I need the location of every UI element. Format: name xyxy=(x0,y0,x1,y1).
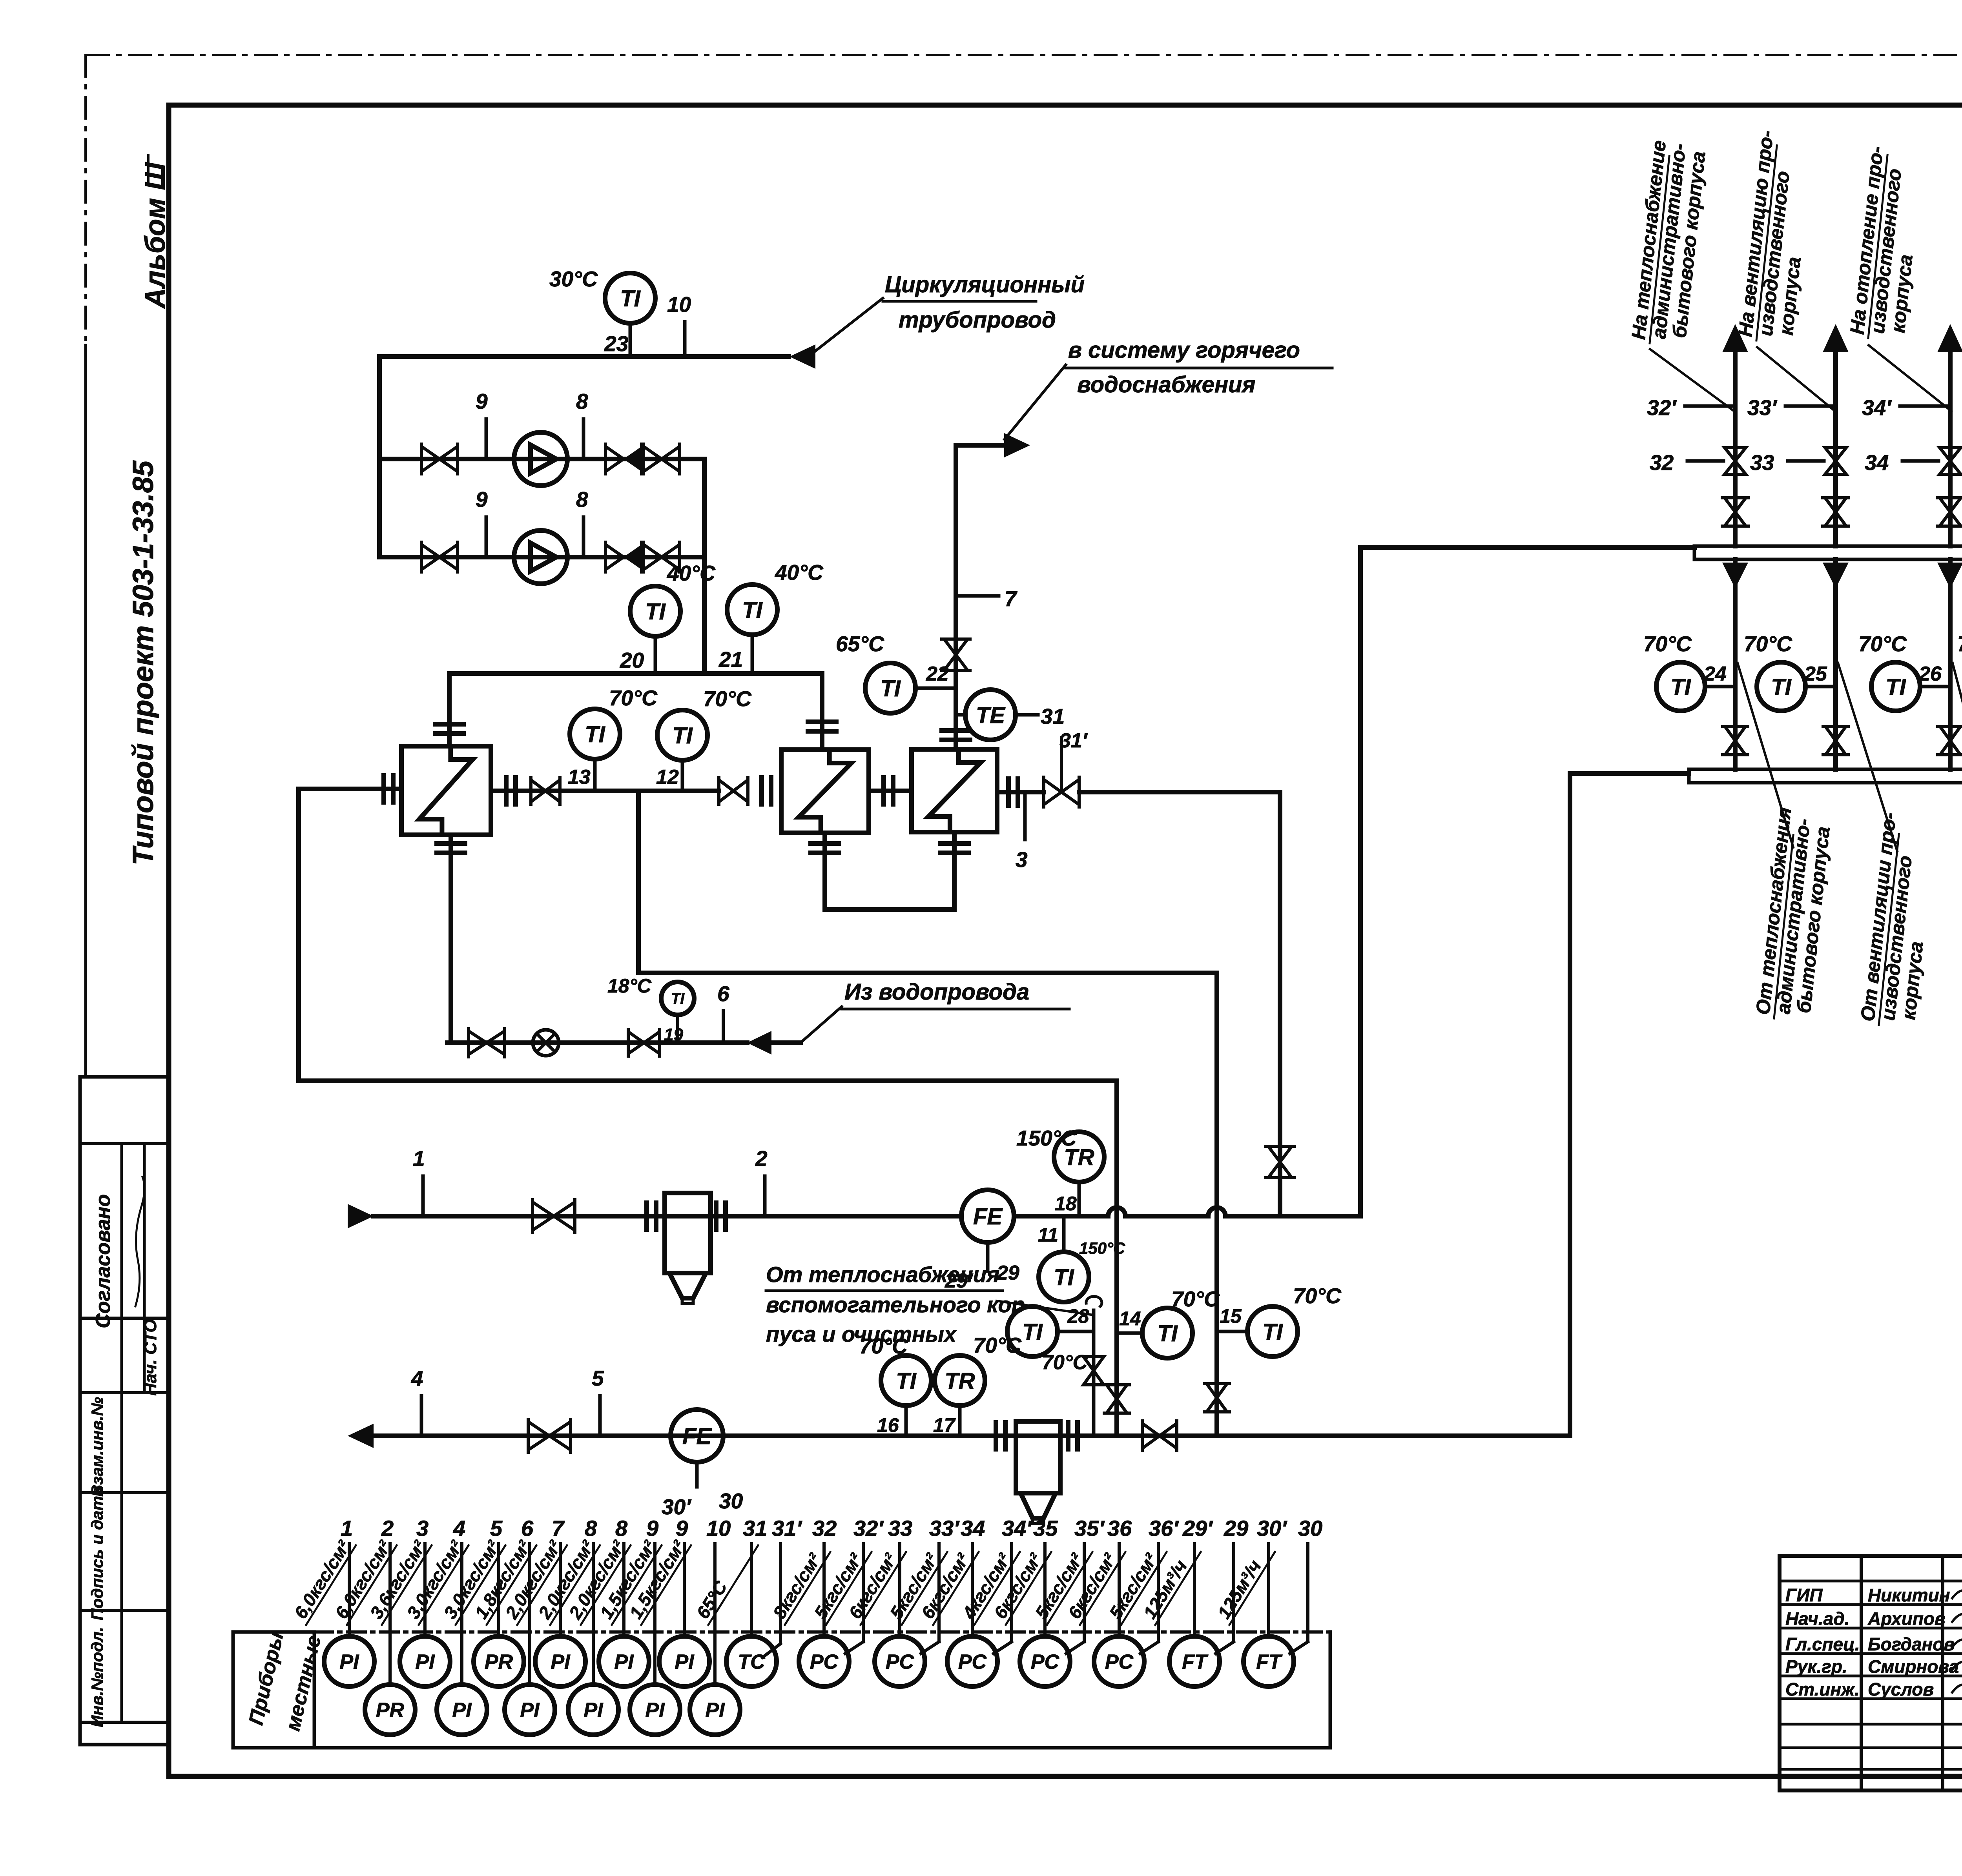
stub 34&#8242; xyxy=(1900,404,1950,408)
signature squiggle xyxy=(135,1177,144,1306)
return header vertical xyxy=(1568,774,1572,1436)
pump discharge vertical xyxy=(702,459,707,674)
svg-text:Нач.ад.: Нач.ад. xyxy=(1785,1608,1849,1629)
valve on return riser 26 xyxy=(1940,727,1960,741)
svg-text:TI: TI xyxy=(1771,674,1792,700)
instrument TI 16 (70C) xyxy=(881,1355,931,1406)
stub 33&#8242; xyxy=(937,1544,941,1642)
valve on line 1 xyxy=(532,1202,554,1230)
svg-text:6: 6 xyxy=(717,982,729,1006)
leader DHW label xyxy=(1005,365,1066,439)
svg-text:Богданов: Богданов xyxy=(1868,1634,1955,1654)
cold loop riser to supply crossing xyxy=(1114,1081,1119,1436)
svg-text:8: 8 xyxy=(576,487,588,512)
svg-text:8: 8 xyxy=(585,1516,597,1541)
cold loop bottom horizontal xyxy=(299,1078,1117,1083)
leader to riser 33 xyxy=(1757,347,1836,412)
svg-text:TI: TI xyxy=(645,599,666,625)
svg-text:3: 3 xyxy=(416,1516,429,1541)
cold loop left vertical xyxy=(296,789,301,1081)
stub 3 xyxy=(1023,792,1027,840)
svg-text:трубопровод: трубопровод xyxy=(899,307,1056,333)
svg-text:70°C: 70°C xyxy=(609,686,658,710)
sheet border left solid part xyxy=(84,345,87,1077)
HX2 left flange xyxy=(759,778,764,804)
svg-text:35: 35 xyxy=(1033,1516,1058,1541)
svg-text:19: 19 xyxy=(664,1025,683,1044)
svg-text:11: 11 xyxy=(1038,1224,1058,1246)
svg-text:Инв.№подл.: Инв.№подл. xyxy=(88,1627,106,1727)
heat exchanger HX3 xyxy=(912,749,997,832)
svg-text:Рук.гр.: Рук.гр. xyxy=(1785,1656,1847,1677)
svg-text:TC: TC xyxy=(738,1651,766,1674)
svg-text:TI: TI xyxy=(672,723,693,749)
supply riser 33 xyxy=(1833,345,1838,546)
valve on return riser 24 xyxy=(1725,727,1745,741)
instrument TE 31 xyxy=(965,690,1016,740)
valve after HX1 xyxy=(531,780,545,802)
water meter xyxy=(533,1030,559,1056)
arrow circulation return xyxy=(790,344,815,369)
svg-text:TI: TI xyxy=(1885,674,1906,700)
instrument PC 36 xyxy=(1118,1544,1121,1636)
svg-text:TE: TE xyxy=(976,703,1006,728)
return header bar xyxy=(1689,769,1962,783)
instrument TI 28 xyxy=(1007,1306,1058,1357)
valve on water line 2 xyxy=(628,1032,644,1054)
svg-text:TI: TI xyxy=(1022,1319,1043,1345)
svg-text:FT: FT xyxy=(1256,1651,1283,1674)
svg-text:9: 9 xyxy=(676,1516,688,1541)
signature table left part xyxy=(1780,1556,1962,1790)
svg-text:40°C: 40°C xyxy=(667,561,716,585)
HX1 bottom to water line xyxy=(449,835,453,1043)
upper feed horizontal xyxy=(1360,545,1694,550)
svg-text:5: 5 xyxy=(592,1366,604,1390)
instrument TR 17 (70C) xyxy=(935,1355,985,1406)
svg-text:1: 1 xyxy=(341,1516,353,1541)
svg-text:29: 29 xyxy=(1224,1516,1248,1541)
check valve pump2 xyxy=(605,545,624,570)
riser to upper header xyxy=(1358,548,1363,1216)
svg-text:Никитин: Никитин xyxy=(1868,1585,1950,1605)
svg-text:PI: PI xyxy=(520,1699,540,1722)
supply line 1 xyxy=(374,1214,961,1218)
leader water label xyxy=(800,1007,842,1043)
instrument TI 11 (150C) xyxy=(1039,1252,1089,1302)
svg-text:70°C: 70°C xyxy=(1042,1351,1088,1374)
instrument FT 30&#8242; xyxy=(1267,1544,1270,1636)
pump branch 2 xyxy=(379,555,704,559)
svg-text:PC: PC xyxy=(810,1651,839,1674)
svg-text:в систему горячего: в систему горячего xyxy=(1068,337,1300,363)
control valve 31' with stem xyxy=(1044,780,1061,805)
HX3 top riser / DHW outlet xyxy=(954,445,958,749)
svg-text:30′: 30′ xyxy=(1257,1516,1287,1541)
valve on pump1 suction xyxy=(421,446,439,472)
pump N1 xyxy=(514,432,567,486)
stub 34&#8242; xyxy=(1010,1544,1013,1642)
svg-text:PC: PC xyxy=(1031,1651,1060,1674)
svg-text:70°C: 70°C xyxy=(1957,632,1962,656)
instrument PI 8 xyxy=(622,1544,625,1636)
svg-text:PI: PI xyxy=(583,1699,604,1722)
instrument TI 15 (70C) xyxy=(1247,1306,1298,1357)
local instruments box xyxy=(233,1630,314,1634)
svg-text:32′: 32′ xyxy=(853,1516,884,1541)
instrument PI 4 xyxy=(460,1544,463,1685)
instrument FE 30 xyxy=(671,1410,723,1462)
stub 8 pump1 xyxy=(582,419,585,459)
instrument TI 13 (70C) xyxy=(570,709,620,759)
svg-text:30: 30 xyxy=(1298,1516,1322,1541)
svg-text:TI: TI xyxy=(1262,1319,1283,1345)
supply line with crossing hops xyxy=(1014,1208,1360,1216)
svg-text:TI: TI xyxy=(585,722,605,747)
svg-text:7: 7 xyxy=(552,1516,565,1541)
svg-text:Типовой проект 503-1-33.85: Типовой проект 503-1-33.85 xyxy=(127,460,159,865)
svg-text:13: 13 xyxy=(568,766,591,789)
svg-text:TI: TI xyxy=(620,286,641,311)
svg-text:23: 23 xyxy=(604,331,628,356)
sheet border dash-dot left xyxy=(84,55,87,345)
svg-text:24: 24 xyxy=(1703,663,1727,685)
stub 6 xyxy=(722,1011,725,1043)
svg-text:Гл.спец.: Гл.спец. xyxy=(1785,1634,1860,1654)
svg-text:150°C: 150°C xyxy=(1016,1126,1077,1150)
HX2 top connection xyxy=(820,674,824,750)
svg-text:PI: PI xyxy=(551,1651,571,1674)
instrument TC 31 xyxy=(750,1544,753,1636)
svg-text:PI: PI xyxy=(614,1651,634,1674)
svg-text:16: 16 xyxy=(877,1414,899,1436)
svg-text:Суслов: Суслов xyxy=(1868,1679,1934,1699)
supply riser 34 xyxy=(1948,345,1953,546)
svg-text:пуса и очистных: пуса и очистных xyxy=(766,1322,957,1346)
svg-text:34′: 34′ xyxy=(1002,1516,1032,1541)
svg-text:22: 22 xyxy=(926,663,949,685)
instrument TI 23 (30C) xyxy=(605,273,655,323)
svg-text:33′: 33′ xyxy=(929,1516,960,1541)
valve on line 4 xyxy=(528,1422,549,1450)
svg-text:31′: 31′ xyxy=(1059,729,1088,752)
return line 4 xyxy=(374,1433,1570,1438)
svg-text:14: 14 xyxy=(1119,1308,1141,1330)
stub 9 pump1 xyxy=(485,419,488,459)
svg-text:18: 18 xyxy=(1055,1193,1077,1215)
svg-text:29′: 29′ xyxy=(1182,1516,1213,1541)
svg-text:70°C: 70°C xyxy=(1744,632,1792,656)
svg-text:Архипов: Архипов xyxy=(1867,1608,1946,1629)
instrument PI 7 xyxy=(559,1544,562,1636)
stub 30 xyxy=(1306,1544,1309,1642)
svg-text:FE: FE xyxy=(682,1424,712,1449)
svg-text:TR: TR xyxy=(945,1368,975,1394)
svg-text:PI: PI xyxy=(645,1699,665,1722)
svg-text:9: 9 xyxy=(476,487,488,512)
water inlet arrow xyxy=(747,1031,771,1055)
svg-text:ГИП: ГИП xyxy=(1785,1585,1823,1605)
leader to riser 34 xyxy=(1869,345,1951,411)
return riser 25 xyxy=(1833,559,1838,769)
svg-text:PC: PC xyxy=(958,1651,987,1674)
svg-text:7: 7 xyxy=(1005,586,1017,611)
instrument TI 22 (65C) xyxy=(865,663,915,713)
svg-text:70°C: 70°C xyxy=(1171,1287,1220,1311)
svg-text:5: 5 xyxy=(490,1516,503,1541)
return riser 26 xyxy=(1948,559,1953,769)
svg-text:33′: 33′ xyxy=(1747,395,1778,420)
HX1 right pipe xyxy=(491,789,719,793)
stub 5 xyxy=(598,1396,602,1436)
svg-text:TI: TI xyxy=(1670,674,1691,700)
pump N2 xyxy=(514,530,567,584)
svg-text:18°C: 18°C xyxy=(607,975,652,997)
instrument FT 29&#8242; xyxy=(1193,1544,1196,1636)
instrument TI 14 (70C) xyxy=(1142,1308,1193,1358)
supply inlet arrow xyxy=(348,1204,374,1228)
pump suction vertical xyxy=(377,357,382,557)
svg-text:Нач. СТО: Нач. СТО xyxy=(141,1319,160,1395)
instrument TI 25 (70C) xyxy=(1757,662,1805,711)
supply riser 32 xyxy=(1733,345,1738,546)
valve 33 xyxy=(1825,448,1846,461)
instrument PI 8 xyxy=(592,1544,595,1685)
stub 29 xyxy=(1232,1544,1235,1642)
return riser 24 xyxy=(1733,559,1738,769)
leader from aux label xyxy=(997,1301,1094,1315)
svg-text:34: 34 xyxy=(961,1516,985,1541)
valve on drain riser xyxy=(1207,1384,1227,1398)
header to heat exchangers xyxy=(449,671,822,676)
valve on cold-loop riser xyxy=(1107,1385,1127,1399)
HX1 top connection xyxy=(447,674,452,746)
valve on return riser 25 xyxy=(1825,727,1846,741)
stub 1 xyxy=(421,1176,425,1216)
stub 32&#8242; xyxy=(862,1544,865,1642)
aux heating inlet riser xyxy=(1086,1296,1102,1306)
instrument PR 2 xyxy=(388,1544,392,1685)
pipe to riser xyxy=(1079,790,1280,794)
svg-text:35′: 35′ xyxy=(1074,1516,1105,1541)
svg-text:30′: 30′ xyxy=(662,1495,692,1519)
isolation valve below 32 xyxy=(1725,498,1746,512)
valve on water line 1 xyxy=(469,1031,487,1055)
stub 36&#8242; xyxy=(1157,1544,1160,1642)
svg-text:PI: PI xyxy=(415,1651,435,1674)
svg-text:33: 33 xyxy=(1750,450,1774,475)
svg-text:PC: PC xyxy=(1105,1651,1134,1674)
instrument PI 9 xyxy=(683,1544,686,1636)
DHW outlet horizontal + arrow xyxy=(956,443,1005,448)
svg-text:TI: TI xyxy=(1157,1321,1178,1346)
circulation top line xyxy=(379,354,789,359)
svg-text:Из водопровода: Из водопровода xyxy=(844,979,1029,1005)
leader to riser 32 xyxy=(1650,349,1735,412)
valve on DHW riser xyxy=(944,639,968,655)
svg-text:9: 9 xyxy=(646,1516,658,1541)
stub 9 pump2 xyxy=(485,517,488,557)
isolation valve below 33 xyxy=(1825,498,1846,512)
svg-text:TI: TI xyxy=(896,1368,917,1394)
svg-text:PI: PI xyxy=(452,1699,472,1722)
HX1 left pipe to cold loop xyxy=(383,787,401,791)
water line xyxy=(447,1040,747,1045)
supply header bar xyxy=(1694,546,1962,559)
label 34 xyxy=(1902,459,1938,463)
instrument TI 24 (70C) xyxy=(1656,662,1705,711)
svg-text:70°C: 70°C xyxy=(973,1333,1022,1357)
heat exchanger HX1 xyxy=(401,746,491,835)
stub 10 xyxy=(683,322,687,357)
svg-text:25: 25 xyxy=(1804,663,1827,685)
svg-text:Подпись и дата: Подпись и дата xyxy=(88,1487,106,1620)
instrument PI 1 xyxy=(348,1544,351,1636)
drain of junction 12/13 down xyxy=(636,791,641,973)
svg-text:8: 8 xyxy=(576,389,588,413)
instrument TI 21 (40C) xyxy=(727,585,777,635)
pump branch 1 xyxy=(379,457,704,461)
svg-text:17: 17 xyxy=(933,1414,956,1436)
leader from return riser 24 xyxy=(1738,663,1793,847)
stub 4 xyxy=(420,1396,423,1436)
svg-text:PR: PR xyxy=(485,1651,513,1674)
svg-text:PR: PR xyxy=(376,1699,405,1722)
valve on line 4 right xyxy=(1142,1423,1160,1448)
HX2 bottom U-pipe to HX3 xyxy=(822,833,827,909)
svg-text:28: 28 xyxy=(1067,1305,1089,1327)
svg-text:PI: PI xyxy=(339,1651,359,1674)
drain riser to return crossing xyxy=(1214,973,1219,1436)
svg-text:2: 2 xyxy=(381,1516,394,1541)
instrument PC 35 xyxy=(1043,1544,1047,1636)
svg-text:36′: 36′ xyxy=(1149,1516,1179,1541)
instrument PR 5 xyxy=(497,1544,500,1636)
valve on aux riser xyxy=(1083,1357,1104,1371)
svg-text:4: 4 xyxy=(453,1516,465,1541)
svg-text:Смирнова: Смирнова xyxy=(1868,1656,1959,1677)
HX3 outlet riser down xyxy=(1278,792,1282,1216)
sheet border dash-dot top xyxy=(87,54,1962,56)
svg-text:12: 12 xyxy=(656,766,679,789)
return outlet arrow xyxy=(348,1424,374,1448)
svg-text:29: 29 xyxy=(996,1262,1019,1284)
svg-text:Циркуляционный: Циркуляционный xyxy=(885,272,1085,297)
instrument PC 33 xyxy=(898,1544,901,1636)
svg-text:2: 2 xyxy=(755,1146,768,1171)
svg-text:33: 33 xyxy=(888,1516,912,1541)
check valve pump1 xyxy=(605,446,624,472)
svg-text:От теплоснабжения: От теплоснабжения xyxy=(766,1262,999,1287)
valve before HX2 xyxy=(719,780,733,802)
svg-text:70°C: 70°C xyxy=(703,687,752,711)
svg-text:1: 1 xyxy=(413,1146,425,1171)
label 33 xyxy=(1788,459,1824,463)
svg-text:FE: FE xyxy=(973,1204,1003,1229)
svg-text:32′: 32′ xyxy=(1647,395,1677,420)
svg-text:TI: TI xyxy=(742,597,763,623)
stub 32&#8242; xyxy=(1685,404,1735,408)
instrument TI 19 (18C) xyxy=(661,982,694,1015)
stub 7 xyxy=(956,594,999,598)
svg-text:PI: PI xyxy=(675,1651,695,1674)
stub 2 xyxy=(763,1176,767,1216)
instrument PI 9 xyxy=(653,1544,656,1685)
svg-text:15: 15 xyxy=(1220,1305,1242,1327)
stub 35&#8242; xyxy=(1083,1544,1086,1642)
svg-text:32: 32 xyxy=(812,1516,837,1541)
valve pump1 discharge xyxy=(644,446,662,472)
svg-text:10: 10 xyxy=(706,1516,731,1541)
svg-text:34: 34 xyxy=(1865,450,1889,475)
svg-text:21: 21 xyxy=(718,647,743,672)
instrument TI 20 (40C) xyxy=(630,586,680,636)
instrument PC 32 xyxy=(822,1544,826,1636)
svg-text:31: 31 xyxy=(743,1516,767,1541)
svg-text:FT: FT xyxy=(1182,1651,1209,1674)
svg-text:40°C: 40°C xyxy=(775,560,824,585)
leader from return riser 25 xyxy=(1838,663,1897,851)
svg-text:Согласовано: Согласовано xyxy=(92,1194,115,1328)
stub 8 pump2 xyxy=(582,517,585,557)
leader to label xyxy=(814,298,883,352)
instrument PI 6 xyxy=(528,1544,531,1685)
instrument PI 3 xyxy=(423,1544,427,1636)
HX3 right pipe xyxy=(997,790,1044,794)
svg-text:4: 4 xyxy=(411,1366,423,1390)
svg-text:10: 10 xyxy=(667,292,691,317)
svg-text:8: 8 xyxy=(615,1516,628,1541)
instrument PI 10 xyxy=(713,1544,717,1685)
instrument TR 18 (150C) xyxy=(1054,1132,1104,1182)
svg-text:31′: 31′ xyxy=(772,1516,802,1541)
valve on pump2 suction xyxy=(421,545,439,570)
stub 33&#8242; xyxy=(1785,404,1836,408)
isolation valve below 34 xyxy=(1940,498,1961,512)
svg-text:PI: PI xyxy=(705,1699,725,1722)
svg-text:TI: TI xyxy=(671,991,685,1007)
svg-text:65°C: 65°C xyxy=(836,632,884,656)
left margin signature table xyxy=(78,1077,82,1745)
svg-text:PC: PC xyxy=(886,1651,915,1674)
svg-text:Ст.инж.: Ст.инж. xyxy=(1785,1679,1860,1699)
svg-text:водоснабжения: водоснабжения xyxy=(1077,372,1256,397)
svg-text:TI: TI xyxy=(1054,1265,1074,1290)
instrument TI 12 (70C) xyxy=(657,710,707,760)
strainer on line 4 xyxy=(994,1422,998,1449)
svg-text:70°C: 70°C xyxy=(1293,1284,1342,1308)
svg-text:32: 32 xyxy=(1650,450,1674,475)
leader from return riser 26 xyxy=(1953,663,1962,851)
HX2 right pipe to HX3 xyxy=(869,789,912,793)
svg-text:вспомогательного кор-: вспомогательного кор- xyxy=(766,1292,1032,1317)
svg-text:Взам.инв.№: Взам.инв.№ xyxy=(88,1397,106,1497)
instrument FE 29 xyxy=(961,1190,1014,1242)
svg-text:26: 26 xyxy=(1918,663,1942,685)
valve 32 xyxy=(1725,448,1746,461)
valve pump2 discharge xyxy=(644,545,662,570)
valve 34 xyxy=(1940,448,1961,461)
svg-text:6: 6 xyxy=(521,1516,534,1541)
svg-text:150°C: 150°C xyxy=(1079,1239,1125,1257)
svg-text:31: 31 xyxy=(1041,704,1065,729)
svg-text:20: 20 xyxy=(620,648,644,672)
svg-text:3: 3 xyxy=(1016,847,1028,872)
heat exchanger HX2 xyxy=(781,750,869,833)
label 32 xyxy=(1687,459,1723,463)
stub 31&#8242; xyxy=(779,1544,782,1644)
svg-text:Альбом Ш: Альбом Ш xyxy=(140,162,171,309)
